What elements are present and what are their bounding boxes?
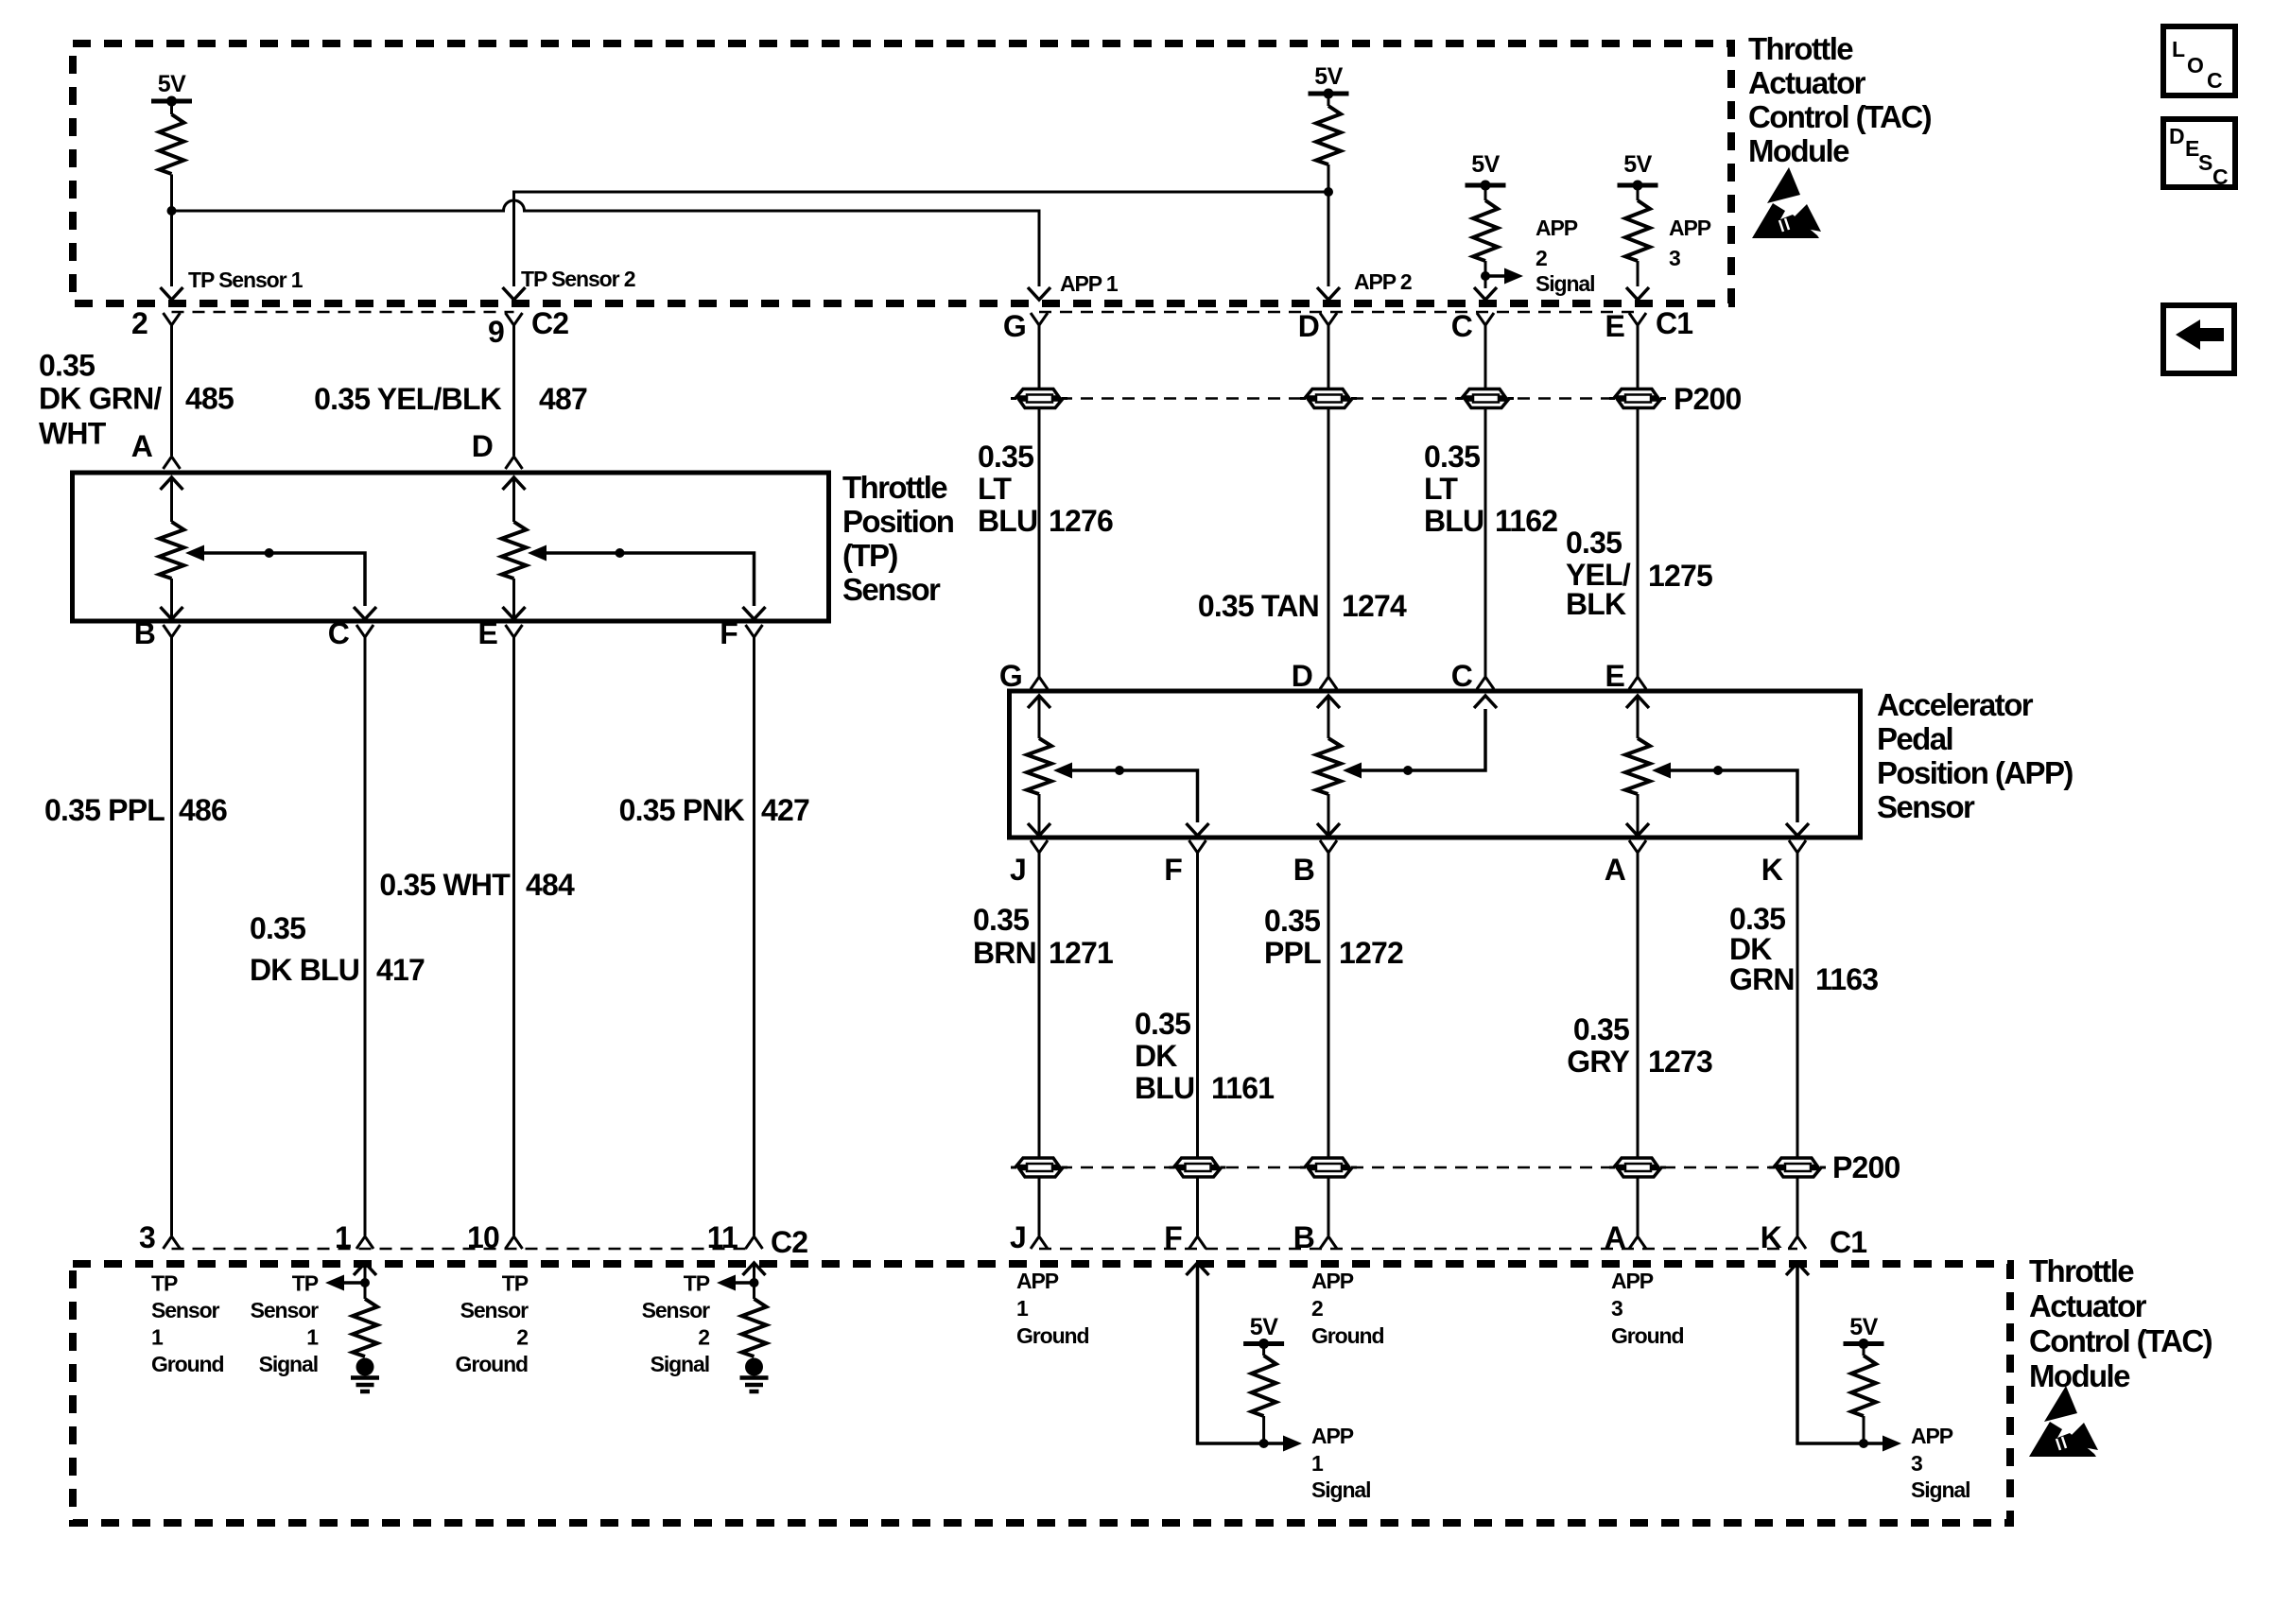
- svg-text:1276: 1276: [1049, 504, 1113, 538]
- svg-text:APP: APP: [1911, 1424, 1953, 1448]
- pin 10 label: [467, 1220, 499, 1254]
- node on APP wiper 2: [1403, 766, 1413, 775]
- arrow APP 3 Signal (into module logic): [1883, 1436, 1901, 1452]
- svg-text:C: C: [328, 616, 350, 650]
- svg-text:A: A: [131, 429, 153, 463]
- svg-text:Sensor: Sensor: [251, 1298, 320, 1322]
- svg-text:A: A: [1605, 853, 1626, 887]
- wire 1163 lower (P200 to pin K): [1796, 1176, 1799, 1235]
- terminal fork pin B (bottom): [1320, 1236, 1337, 1249]
- arrow into connector (APP 1 output): [1028, 287, 1050, 300]
- svg-text:APP: APP: [1016, 1269, 1059, 1293]
- label APP 1: [1060, 271, 1119, 296]
- module box: Throttle Actuator Control (TAC) Module (bottom): [73, 1264, 2010, 1523]
- svg-text:(TP): (TP): [842, 538, 897, 573]
- label circuit 1271 color: [973, 903, 1036, 970]
- svg-text:0.35: 0.35: [39, 349, 95, 383]
- label circuit 485 number: [185, 382, 234, 416]
- svg-text:LT: LT: [1424, 472, 1458, 506]
- terminal fork pin 2: [164, 313, 181, 325]
- label circuit 486 number: [179, 793, 227, 827]
- power 5V bus bar (APP 3 signal pull-up): [1844, 1339, 1884, 1349]
- node on TP wiper 1: [265, 548, 274, 558]
- wire arrow to node (TP2 signal): [736, 1281, 755, 1285]
- label TP Sensor 1: [188, 268, 304, 292]
- arrow down (APP wiper 1 to pin F): [1187, 823, 1209, 836]
- arrow up (TP pot 2 top): [503, 477, 526, 522]
- svg-text:C: C: [2207, 68, 2223, 93]
- label APP 3 Ground: [1611, 1269, 1683, 1348]
- resistor R6 (TP sensor 2 signal load): [742, 1299, 767, 1356]
- wire 1271 lower (P200 to pin J): [1038, 1176, 1041, 1235]
- svg-text:BLU: BLU: [978, 504, 1037, 538]
- pin D label (TP sensor): [472, 429, 493, 463]
- label circuit 1161 color: [1135, 1007, 1194, 1105]
- svg-text:11: 11: [707, 1220, 737, 1254]
- label TP Sensor 1 Signal: [251, 1271, 320, 1377]
- arrow out of connector (pin K, APP 3 Signal): [1786, 1263, 1809, 1275]
- svg-text:Ground: Ground: [151, 1352, 223, 1376]
- label circuit 484 color: [379, 868, 511, 902]
- in-line connector P200 (circuit 1161): [1170, 1158, 1226, 1177]
- svg-text:1272: 1272: [1339, 936, 1403, 970]
- wire node TP1 down to TP Sensor 1 output arrow: [170, 211, 173, 286]
- component box: Throttle Position (TP) Sensor: [73, 473, 829, 621]
- wire 484 (TP E to pin 10): [512, 637, 515, 1235]
- svg-text:Throttle: Throttle: [842, 470, 947, 505]
- arrow down (APP pot 3 bottom): [1626, 822, 1649, 836]
- pin B label (bottom): [1293, 1220, 1314, 1254]
- svg-text:0.35 PNK: 0.35 PNK: [619, 793, 745, 827]
- svg-text:GRN: GRN: [1729, 962, 1795, 996]
- resistor R5 (TP sensor 1 signal load): [353, 1299, 377, 1356]
- arrow down (APP pot 2 bottom): [1317, 822, 1340, 836]
- wire 1275 upper (pin E to P200): [1637, 325, 1640, 390]
- node APP3 signal junction: [1859, 1439, 1868, 1448]
- potentiometer APP2 element: [1316, 738, 1341, 794]
- wire arrow to node (TP1 signal): [344, 1281, 365, 1285]
- svg-text:0.35: 0.35: [1135, 1007, 1190, 1041]
- arrow into connector (APP 2 signal sense): [1474, 287, 1497, 300]
- in-line connector P200 (circuit 1276): [1011, 389, 1067, 408]
- label circuit 427 number: [761, 793, 809, 827]
- svg-text:0.35: 0.35: [1424, 440, 1480, 474]
- wiper arrow APP pot 1: [1053, 763, 1072, 779]
- pin C label (APP): [1451, 659, 1473, 693]
- svg-text:C2: C2: [771, 1225, 807, 1259]
- node APP2 junction: [1324, 187, 1333, 197]
- power 5V label (APP 3 signal pull-up): [1849, 1314, 1878, 1340]
- arrow up (APP pot 2 top): [1317, 696, 1340, 738]
- label TP Sensor 2 Signal: [642, 1271, 711, 1377]
- svg-text:3: 3: [139, 1220, 155, 1254]
- svg-text:0.35: 0.35: [973, 903, 1029, 937]
- svg-text:C: C: [1451, 659, 1473, 693]
- pin K label (APP): [1761, 853, 1783, 887]
- component box: Accelerator Pedal Position (APP) Sensor: [1010, 691, 1861, 838]
- pin C label: [1451, 309, 1473, 343]
- svg-text:Control (TAC): Control (TAC): [2029, 1323, 2212, 1358]
- connector P200 line (top): [1039, 397, 1638, 400]
- wire 1276 upper (pin G to P200): [1038, 325, 1041, 390]
- svg-text:1: 1: [151, 1325, 164, 1350]
- wire APP wiper 1 to pin F drop: [1072, 770, 1198, 822]
- terminal fork pin K (bottom): [1789, 1236, 1806, 1249]
- svg-text:0.35 PPL: 0.35 PPL: [44, 793, 165, 827]
- connector C2 label (bottom): [771, 1225, 807, 1259]
- arrow up (APP pot 1 top): [1028, 696, 1050, 738]
- svg-text:Ground: Ground: [456, 1352, 528, 1376]
- svg-text:1273: 1273: [1648, 1045, 1712, 1079]
- svg-text:Sensor: Sensor: [1877, 789, 1975, 824]
- arrow APP 2 Signal (into module logic): [1504, 268, 1523, 285]
- svg-text:Signal: Signal: [1911, 1477, 1969, 1502]
- label circuit 487 color: [314, 382, 502, 416]
- label circuit 1271 number: [1049, 936, 1113, 970]
- pin 2 label: [131, 306, 147, 340]
- svg-text:LT: LT: [978, 472, 1012, 506]
- label circuit 1163 number: [1815, 962, 1878, 996]
- pin 9 label: [488, 315, 504, 349]
- svg-text:F: F: [1164, 1220, 1182, 1254]
- pin E label: [1605, 309, 1624, 343]
- power 5V label (TP sensor 1 supply): [158, 71, 186, 97]
- svg-text:484: 484: [526, 868, 575, 902]
- connector P200 line (bottom): [1039, 1166, 1797, 1169]
- wire pin F down and right to APP1 signal node: [1198, 1263, 1264, 1443]
- svg-text:0.35: 0.35: [1566, 526, 1622, 560]
- connector C2 label: [531, 306, 568, 340]
- svg-text:5V: 5V: [158, 71, 186, 97]
- svg-text:427: 427: [761, 793, 809, 827]
- svg-text:D: D: [1292, 659, 1312, 693]
- in-line connector P200 (circuit 1274): [1300, 389, 1357, 408]
- legend box back-arrow: [2163, 305, 2234, 373]
- wire node APP2 left to TP Sensor 2 corner: [514, 192, 1329, 286]
- svg-text:486: 486: [179, 793, 227, 827]
- wire 1161 lower (P200 to pin F): [1196, 1176, 1199, 1235]
- terminal fork pin F (bottom): [1189, 1236, 1206, 1249]
- svg-text:1161: 1161: [1211, 1071, 1274, 1105]
- label APP 1 Ground: [1016, 1269, 1088, 1348]
- label APP 3 Signal: [1911, 1424, 1969, 1502]
- connector C1 line (pins G,D,C,E): [1039, 311, 1638, 314]
- pin D label (APP): [1292, 659, 1312, 693]
- resistor R4 (APP 3 pull-up): [1625, 185, 1650, 261]
- svg-text:J: J: [1010, 853, 1026, 887]
- pin E label (APP): [1605, 659, 1624, 693]
- node TP1 junction: [167, 206, 177, 216]
- svg-text:GRY: GRY: [1567, 1045, 1629, 1079]
- node on APP wiper 3: [1713, 766, 1723, 775]
- svg-text:F: F: [1164, 853, 1182, 887]
- svg-text:5V: 5V: [1471, 151, 1500, 178]
- wire 1273 lower (P200 to pin A): [1637, 1176, 1640, 1235]
- svg-text:APP: APP: [1669, 216, 1711, 240]
- svg-text:0.35: 0.35: [978, 440, 1033, 474]
- svg-text:1: 1: [306, 1325, 319, 1350]
- terminal fork TP sensor pin A: [164, 457, 181, 469]
- label circuit 1275 number: [1648, 559, 1712, 593]
- arrow APP 1 Signal (into module logic): [1283, 1436, 1302, 1452]
- connector C2 line (pins 2,9): [172, 311, 514, 314]
- svg-text:3: 3: [1911, 1451, 1922, 1476]
- svg-text:Signal: Signal: [1536, 271, 1594, 296]
- svg-text:APP: APP: [1611, 1269, 1654, 1293]
- svg-text:G: G: [999, 659, 1022, 693]
- svg-text:0.35: 0.35: [250, 911, 305, 945]
- terminal fork TP pin C: [356, 625, 373, 637]
- svg-text:0.35: 0.35: [1573, 1012, 1629, 1046]
- terminal fork pin C (C1): [1477, 313, 1494, 325]
- wire 1274 upper (pin D to P200): [1327, 325, 1330, 390]
- arrow TP Sensor 1 Signal (into module logic): [325, 1275, 344, 1291]
- svg-text:APP 2: APP 2: [1354, 269, 1412, 294]
- wire resistor to APP3 signal node: [1863, 1416, 1865, 1443]
- svg-text:C1: C1: [1830, 1225, 1866, 1259]
- terminal fork pin D (C1): [1320, 313, 1337, 325]
- pin 1 label: [335, 1220, 351, 1254]
- wire 1276 lower (P200 to APP G): [1038, 406, 1041, 677]
- svg-text:2: 2: [1311, 1296, 1323, 1321]
- label APP 3: [1669, 216, 1711, 270]
- wiper arrow APP pot 3: [1652, 763, 1671, 779]
- svg-text:PPL: PPL: [1264, 936, 1321, 970]
- svg-text:BRN: BRN: [973, 936, 1036, 970]
- label circuit 1274 color: [1198, 589, 1319, 623]
- arrow into connector (APP 3 sense): [1626, 287, 1649, 300]
- power 5V bus bar (APP 2 signal pull-up): [1466, 181, 1506, 191]
- in-line connector P200 (circuit 1273): [1609, 1158, 1666, 1177]
- label APP 2 Signal: [1536, 216, 1594, 296]
- svg-text:9: 9: [488, 315, 504, 349]
- svg-text:DK: DK: [1135, 1039, 1177, 1073]
- pin 3 label: [139, 1220, 155, 1254]
- wiper arrow APP pot 2: [1343, 763, 1362, 779]
- wire APP pot1 bottom: [1038, 794, 1041, 822]
- svg-text:P200: P200: [1832, 1150, 1900, 1184]
- terminal fork pin J (bottom): [1031, 1236, 1048, 1249]
- label circuit 1276 number: [1049, 504, 1113, 538]
- svg-text:TP: TP: [151, 1271, 178, 1296]
- svg-text:WHT: WHT: [39, 417, 107, 451]
- svg-text:2: 2: [1536, 246, 1547, 270]
- label Throttle Actuator Control (TAC) Module (bottom): [2029, 1253, 2212, 1393]
- wire resistor to connector arrow: [1637, 261, 1640, 286]
- svg-text:1162: 1162: [1495, 504, 1557, 538]
- terminal fork APP pin K: [1789, 840, 1806, 853]
- wire 1275 lower (P200 to APP E): [1637, 406, 1640, 677]
- wire 5V bar to resistor: [170, 101, 173, 114]
- svg-text:0.35 TAN: 0.35 TAN: [1198, 589, 1319, 623]
- svg-text:Control (TAC): Control (TAC): [1748, 99, 1932, 134]
- wire node APP2SIG down to connector arrow: [1484, 276, 1487, 288]
- svg-text:DK: DK: [1729, 932, 1772, 966]
- ESD sensitivity symbol (top module): [1752, 167, 1821, 238]
- svg-text:DK BLU: DK BLU: [250, 953, 359, 987]
- pin F label (bottom): [1164, 1220, 1182, 1254]
- arrow down (TP pot 2 bottom): [503, 606, 526, 619]
- node TP1 signal junction: [360, 1278, 370, 1287]
- svg-text:1: 1: [335, 1220, 351, 1254]
- svg-text:BLK: BLK: [1566, 587, 1626, 621]
- svg-text:C1: C1: [1656, 306, 1692, 340]
- svg-text:Ground: Ground: [1016, 1323, 1088, 1348]
- arrow TP Sensor 2 Signal (into module logic): [717, 1275, 736, 1291]
- label circuit 486 color: [44, 793, 165, 827]
- terminal fork APP pin B: [1320, 840, 1337, 853]
- svg-text:BLU: BLU: [1135, 1071, 1194, 1105]
- terminal fork pin G (C1): [1031, 313, 1048, 325]
- label circuit 487 number: [539, 382, 587, 416]
- svg-text:DK GRN/: DK GRN/: [39, 382, 162, 416]
- wire TP wiper 2 to pin F drop: [547, 553, 755, 606]
- svg-text:APP: APP: [1311, 1269, 1354, 1293]
- label APP 2: [1354, 269, 1412, 294]
- terminal fork TP pin B: [164, 625, 181, 637]
- connector C1 label: [1656, 306, 1692, 340]
- svg-text:TP: TP: [684, 1271, 710, 1296]
- svg-text:S: S: [2198, 150, 2212, 175]
- pin A label (bottom): [1605, 1220, 1626, 1254]
- label circuit 1162 color: [1424, 440, 1484, 538]
- svg-text:485: 485: [185, 382, 234, 416]
- svg-text:Pedal: Pedal: [1877, 721, 1952, 756]
- svg-text:O: O: [2187, 53, 2204, 78]
- wire node to APP 3 Signal arrow: [1864, 1442, 1883, 1445]
- pin F label (TP sensor): [720, 616, 737, 650]
- svg-text:Actuator: Actuator: [2029, 1288, 2147, 1323]
- connector C1 label (bottom): [1830, 1225, 1866, 1259]
- terminal fork TP pin E: [506, 625, 523, 637]
- ESD sensitivity symbol (bottom module): [2029, 1386, 2098, 1457]
- label circuit 1274 number: [1342, 589, 1407, 623]
- wire 5V bar to resistor: [1327, 94, 1330, 106]
- node APP2SIG junction: [1481, 271, 1490, 281]
- svg-text:5V: 5V: [1250, 1314, 1278, 1340]
- wire 487 (pin 9 to TP sensor D): [512, 325, 515, 456]
- arrow down (TP pot 1 bottom): [161, 606, 183, 619]
- wire node APP2 down to APP 2 output arrow: [1327, 192, 1330, 286]
- svg-text:G: G: [1003, 309, 1026, 343]
- label TP Sensor 2 Ground: [456, 1271, 529, 1377]
- svg-text:D: D: [1298, 309, 1319, 343]
- terminal fork pin 1: [356, 1236, 373, 1249]
- arrow up (APP pot 3 top): [1626, 696, 1649, 738]
- label connector P200 (bottom): [1832, 1150, 1900, 1184]
- terminal fork APP pin D: [1320, 677, 1337, 689]
- svg-text:3: 3: [1669, 246, 1680, 270]
- connector C1 line (pins J,F,B,A,K): [1039, 1248, 1797, 1251]
- svg-text:Accelerator: Accelerator: [1877, 687, 2034, 722]
- svg-text:C2: C2: [531, 306, 568, 340]
- resistor R1 (TP sensor 1 pull-up, inside TAC module): [160, 114, 184, 174]
- pin D label: [1298, 309, 1319, 343]
- resistor R8 (APP 3 signal pull-up): [1851, 1344, 1876, 1416]
- svg-text:TP Sensor 1: TP Sensor 1: [188, 268, 304, 292]
- in-line connector P200 (circuit 1163): [1769, 1158, 1826, 1177]
- label circuit 1272 color: [1264, 904, 1321, 970]
- pin A label: [131, 429, 153, 463]
- svg-text:E: E: [1605, 659, 1624, 693]
- svg-text:2: 2: [516, 1325, 528, 1350]
- module box: Throttle Actuator Control (TAC) Module (top): [73, 43, 1731, 303]
- svg-text:K: K: [1761, 853, 1783, 887]
- power 5V label (APP 2 supply): [1314, 63, 1343, 90]
- arrow out of connector (pin 11, TP Sensor 2 Signal): [743, 1263, 766, 1299]
- label TP Sensor 2: [521, 267, 635, 291]
- svg-text:2: 2: [698, 1325, 709, 1350]
- arrow into connector (TP Sensor 1 output): [161, 287, 183, 300]
- in-line connector P200 (circuit 1272): [1300, 1158, 1357, 1177]
- svg-text:Sensor: Sensor: [642, 1298, 711, 1322]
- svg-text:5V: 5V: [1849, 1314, 1878, 1340]
- svg-text:TP: TP: [292, 1271, 319, 1296]
- label APP 1 Signal: [1311, 1424, 1370, 1502]
- svg-text:E: E: [477, 616, 497, 650]
- label circuit 1275 color: [1566, 526, 1631, 621]
- terminal fork TP sensor pin D: [506, 457, 523, 469]
- wire resistor to node TP1: [170, 174, 173, 211]
- pin J label (APP): [1010, 853, 1026, 887]
- wire 1274 lower (P200 to APP D): [1327, 406, 1330, 677]
- node TP2 signal junction: [750, 1278, 759, 1287]
- arrow up (TP pot 1 top): [161, 477, 183, 522]
- wire pin K down and right to APP3 signal node: [1797, 1263, 1864, 1443]
- wire 417 (TP C to pin 1): [364, 637, 367, 1235]
- svg-text:Sensor: Sensor: [842, 572, 941, 607]
- svg-text:10: 10: [467, 1220, 499, 1254]
- label circuit 1272 number: [1339, 936, 1403, 970]
- terminal fork APP pin C: [1477, 677, 1494, 689]
- arrow up (APP wiper 2 to pin C): [1474, 696, 1497, 708]
- pin B label (APP): [1293, 853, 1314, 887]
- svg-text:B: B: [1293, 1220, 1314, 1254]
- terminal fork pin 10: [506, 1236, 523, 1249]
- label circuit 417 color: [250, 911, 359, 987]
- svg-text:Sensor: Sensor: [151, 1298, 220, 1322]
- pin B label: [134, 616, 155, 650]
- arrow into connector (TP Sensor 2 output): [503, 287, 526, 300]
- wire TP wiper 1 to pin C drop: [204, 553, 365, 606]
- svg-text:F: F: [720, 616, 737, 650]
- wire node to APP 2 Signal arrow: [1485, 274, 1504, 278]
- svg-text:C: C: [2212, 164, 2229, 189]
- power 5V label (APP 1 signal pull-up): [1250, 1314, 1278, 1340]
- terminal fork TP pin F: [746, 625, 763, 637]
- svg-text:B: B: [1293, 853, 1314, 887]
- label circuit 1162 number: [1495, 504, 1557, 538]
- wire APP wiper 2 to pin C riser: [1362, 709, 1485, 770]
- svg-text:5V: 5V: [1623, 151, 1652, 178]
- in-line connector P200 (circuit 1271): [1011, 1158, 1067, 1177]
- pin K label (bottom): [1761, 1220, 1782, 1254]
- in-line connector P200 (circuit 1275): [1609, 389, 1666, 408]
- power 5V bus bar (APP 1 signal pull-up): [1243, 1339, 1284, 1349]
- wire TP1 node to APP1 corner (hops over TP Sensor 2 wire): [172, 200, 1040, 286]
- wire resistor to node APP2SIG: [1484, 261, 1487, 276]
- pin C label (TP sensor): [328, 616, 350, 650]
- power 5V label (APP 2 signal pull-up): [1471, 151, 1500, 178]
- wire node to APP 1 Signal arrow: [1264, 1442, 1283, 1445]
- label circuit 417 number: [376, 953, 425, 987]
- svg-text:Signal: Signal: [259, 1352, 318, 1376]
- svg-text:Module: Module: [2029, 1358, 2130, 1393]
- svg-text:Ground: Ground: [1611, 1323, 1683, 1348]
- svg-text:APP: APP: [1311, 1424, 1354, 1448]
- svg-text:Module: Module: [1748, 133, 1849, 168]
- power 5V bus bar (APP 2 supply): [1309, 89, 1349, 99]
